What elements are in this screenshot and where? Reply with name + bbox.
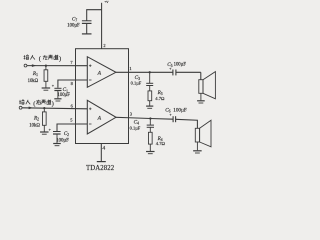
svg-text:+: + bbox=[170, 113, 172, 117]
svg-text:0.1µF: 0.1µF bbox=[130, 125, 141, 130]
wire: right input to pin 6 (+ input of A2) bbox=[22, 108, 87, 109]
svg-text:4.7Ω: 4.7Ω bbox=[155, 96, 165, 101]
junction: right input / R2 bbox=[43, 107, 45, 109]
label 输入（左声道） bbox=[23, 55, 25, 59]
svg-text:): ) bbox=[59, 56, 61, 63]
svg-text:2: 2 bbox=[103, 43, 105, 48]
resistor R3 bbox=[148, 91, 152, 101]
wire: +V supply rail into pin 2 bbox=[101, 3, 103, 49]
ground (pin 4) bbox=[97, 161, 106, 163]
capacitor C4 (0.1uF Zobel) bbox=[149, 119, 151, 126]
label 输入（右声道） bbox=[19, 100, 21, 104]
input terminal (left channel) bbox=[24, 64, 27, 67]
input terminal (right channel) bbox=[19, 106, 22, 109]
arrow on left input wire bbox=[32, 65, 36, 67]
resistor R1 bbox=[45, 66, 47, 70]
ground (speaker BL1) bbox=[197, 100, 205, 102]
svg-text:A: A bbox=[97, 115, 102, 121]
svg-text:10kΩ: 10kΩ bbox=[28, 79, 39, 84]
resistor R4 bbox=[148, 132, 152, 144]
svg-text:100µF: 100µF bbox=[58, 93, 71, 98]
junction: Zobel branch on output 1 bbox=[149, 71, 151, 73]
wire: left input to pin 7 (+ input of A1) bbox=[27, 65, 87, 67]
junction: left input / R1 bbox=[45, 65, 47, 67]
wire: pin 5 (- input of A2) to C2 bbox=[57, 124, 87, 131]
svg-text:100µF: 100µF bbox=[173, 108, 187, 114]
arrow on right input wire bbox=[29, 107, 33, 109]
svg-text:1: 1 bbox=[129, 66, 131, 71]
ground (speaker BL2) bbox=[193, 150, 202, 152]
op-amp A1 (top half of TDA2822) bbox=[87, 57, 116, 88]
svg-text:10kΩ: 10kΩ bbox=[29, 123, 40, 128]
ground (C1) bbox=[54, 98, 61, 100]
ground (R2) bbox=[40, 131, 49, 133]
svg-text:4.7Ω: 4.7Ω bbox=[156, 141, 166, 146]
ground (R1) bbox=[42, 87, 51, 89]
svg-text:4: 4 bbox=[102, 145, 105, 151]
wire: pin 4 to ground bbox=[100, 144, 102, 162]
junction: Zobel branch on output 2 bbox=[149, 117, 151, 119]
wire: pin 3 output of A2 to speaker (through C6 gap) bbox=[116, 117, 150, 118]
capacitor C7 (100uF supply decoupling) bbox=[82, 20, 92, 22]
wire: pin 8 (- input of A1) to C1 bbox=[58, 80, 87, 88]
ground (C7) bbox=[82, 33, 92, 35]
op-amp A2 (bottom half of TDA2822) bbox=[87, 100, 116, 134]
ground (R4) bbox=[146, 151, 155, 153]
speaker BL2 (right channel) bbox=[195, 128, 199, 142]
svg-text:100µF: 100µF bbox=[67, 24, 80, 29]
IC U1 TDA2822 package outline bbox=[76, 49, 129, 144]
speaker BL1 (left channel) bbox=[199, 80, 203, 94]
svg-text:100µF: 100µF bbox=[174, 62, 187, 67]
svg-text:+V: +V bbox=[104, 0, 109, 4]
svg-text:A: A bbox=[97, 70, 102, 76]
resistor R2 bbox=[43, 108, 45, 112]
paper background bbox=[0, 0, 232, 183]
capacitor C3 (0.1uF Zobel) bbox=[149, 72, 151, 83]
svg-text:(: ( bbox=[39, 56, 41, 63]
svg-text:100µF: 100µF bbox=[56, 138, 69, 143]
svg-text:): ) bbox=[52, 100, 54, 107]
svg-text:(: ( bbox=[33, 100, 35, 107]
svg-text:TDA2822: TDA2822 bbox=[86, 165, 115, 172]
svg-text:0.1µF: 0.1µF bbox=[131, 80, 142, 85]
ground (C2) bbox=[53, 143, 61, 145]
wire: pin 1 output of A1 to speaker (through C5 gap) bbox=[116, 71, 173, 73]
ground (R3) bbox=[146, 105, 153, 107]
wire: branch from supply rail to C7 bbox=[87, 10, 102, 21]
